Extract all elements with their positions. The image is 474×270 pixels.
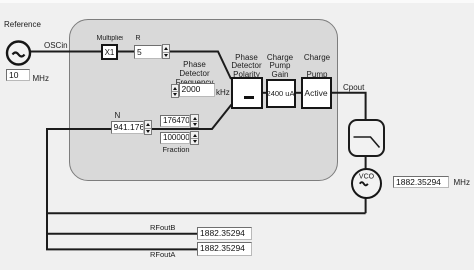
wire OSCin: oscillator to multiplier: [30, 51, 101, 53]
wire Cpout: charge pump to loop filter: [331, 93, 366, 121]
wire feedback vertical bus: [46, 128, 48, 250]
wire phase detector to charge pump gain: [262, 92, 266, 94]
wire RFoutA branch: [46, 248, 197, 250]
wire RFoutB branch: [46, 233, 197, 235]
field RFoutA frequency: [197, 242, 252, 256]
field reference frequency value 10: [6, 69, 30, 81]
multiplier block X1: [101, 44, 118, 60]
R counter field: [134, 45, 162, 59]
label Reference: [4, 21, 41, 29]
fraction denominator field 1000000: [160, 132, 190, 145]
wire feedback into N counter: [47, 128, 111, 130]
wire VCO output bottom return: [46, 212, 366, 214]
node Cpout: [343, 84, 364, 92]
fraction denominator spin buttons: [190, 131, 199, 145]
field VCO output frequency: [393, 176, 449, 188]
label Charge Pump (state): [295, 54, 339, 80]
label N: [115, 112, 121, 120]
label Phase Detector Frequency: [170, 60, 219, 88]
svg-text:VCO: VCO: [359, 174, 375, 181]
phase detector frequency field 2000: [179, 83, 216, 97]
label R: [136, 35, 141, 43]
R counter spin buttons: [162, 44, 171, 59]
loop filter box: [349, 120, 384, 156]
N counter field 941.176: [111, 121, 145, 135]
wire R counter to phase detector (with diagonal): [169, 52, 231, 80]
label Fraction: [156, 146, 196, 155]
fraction numerator spin buttons: [190, 114, 199, 128]
node OSCin: [44, 42, 68, 50]
charge pump gain block 2400 uA: [266, 79, 296, 108]
phase detector frequency spin buttons (left side): [171, 84, 180, 99]
node RFoutA: [150, 251, 175, 259]
window top edge highlight: [0, 0, 474, 3]
label MHz: [33, 75, 49, 83]
reference oscillator symbol: [7, 42, 30, 65]
wire charge pump gain to charge pump state: [295, 92, 301, 94]
N counter spin buttons: [144, 120, 153, 135]
field RFoutB frequency: [197, 227, 252, 240]
wire multiplier to R counter: [117, 51, 135, 53]
wire VCO output down: [365, 197, 367, 213]
fraction numerator field 176470: [160, 115, 190, 128]
label Phase Detector Polarity: [222, 54, 271, 80]
phase detector block with minus polarity: [231, 77, 263, 109]
node RFoutB: [150, 224, 175, 232]
PLL inner panel (gray rounded region): [69, 19, 338, 181]
VCO symbol: [352, 169, 381, 198]
label Multiplier: [97, 35, 124, 43]
label kHz: [216, 89, 230, 97]
wire loop filter to VCO: [365, 155, 367, 170]
label Charge Pump Gain: [258, 54, 302, 80]
label MHz (VCO output): [454, 179, 470, 187]
charge pump state block Active: [301, 77, 332, 109]
wire N counter to phase detector (with diagonal): [151, 105, 232, 130]
